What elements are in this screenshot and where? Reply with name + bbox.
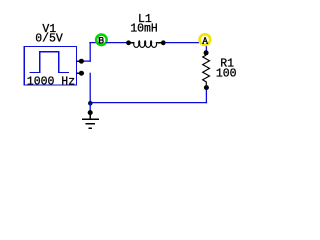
node A: [200, 34, 211, 45]
wire: node A down to R1: [205, 46, 207, 52]
wire: R1 bottom down: [205, 90, 207, 104]
ground terminal dot: [88, 110, 93, 115]
ground: [82, 115, 99, 129]
V1 top terminal dot: [79, 59, 84, 64]
wire: left riser bottom rail up to V1 bottom terminal: [89, 73, 91, 104]
wire: inductor to node A: [165, 42, 199, 44]
svg-text:1000 Hz: 1000 Hz: [27, 75, 75, 88]
inductor L1 right terminal dot: [161, 40, 166, 45]
resistor R1 top terminal dot: [204, 50, 209, 55]
V1 bottom terminal dot: [79, 71, 84, 76]
inductor L1 right stub: [158, 42, 162, 44]
svg-text:10mH: 10mH: [130, 22, 158, 35]
wire: V1 top terminal to riser: [84, 60, 91, 62]
voltage source V1 box: [24, 47, 76, 86]
wire: bottom rail: [89, 102, 207, 104]
wire: node B to inductor: [106, 42, 127, 44]
inductor L1 left stub: [131, 42, 135, 44]
V1 square-wave symbol: [29, 52, 69, 73]
wire: ground stem (blue part): [89, 103, 91, 111]
inductor L1 coil: [134, 41, 158, 48]
resistor R1 bottom terminal dot: [204, 85, 209, 90]
junction dot at bottom rail / ground: [88, 101, 93, 106]
V1 bottom terminal stub: [77, 72, 85, 74]
inductor L1 left terminal dot: [126, 40, 131, 45]
wire: riser up to top rail: [89, 42, 91, 62]
V1 top terminal stub: [77, 60, 85, 62]
svg-text:0/5V: 0/5V: [35, 33, 63, 46]
svg-text:100: 100: [216, 67, 237, 80]
node B: [96, 35, 107, 46]
wire: top rail into node B: [89, 42, 97, 44]
resistor R1 zigzag: [203, 55, 210, 85]
